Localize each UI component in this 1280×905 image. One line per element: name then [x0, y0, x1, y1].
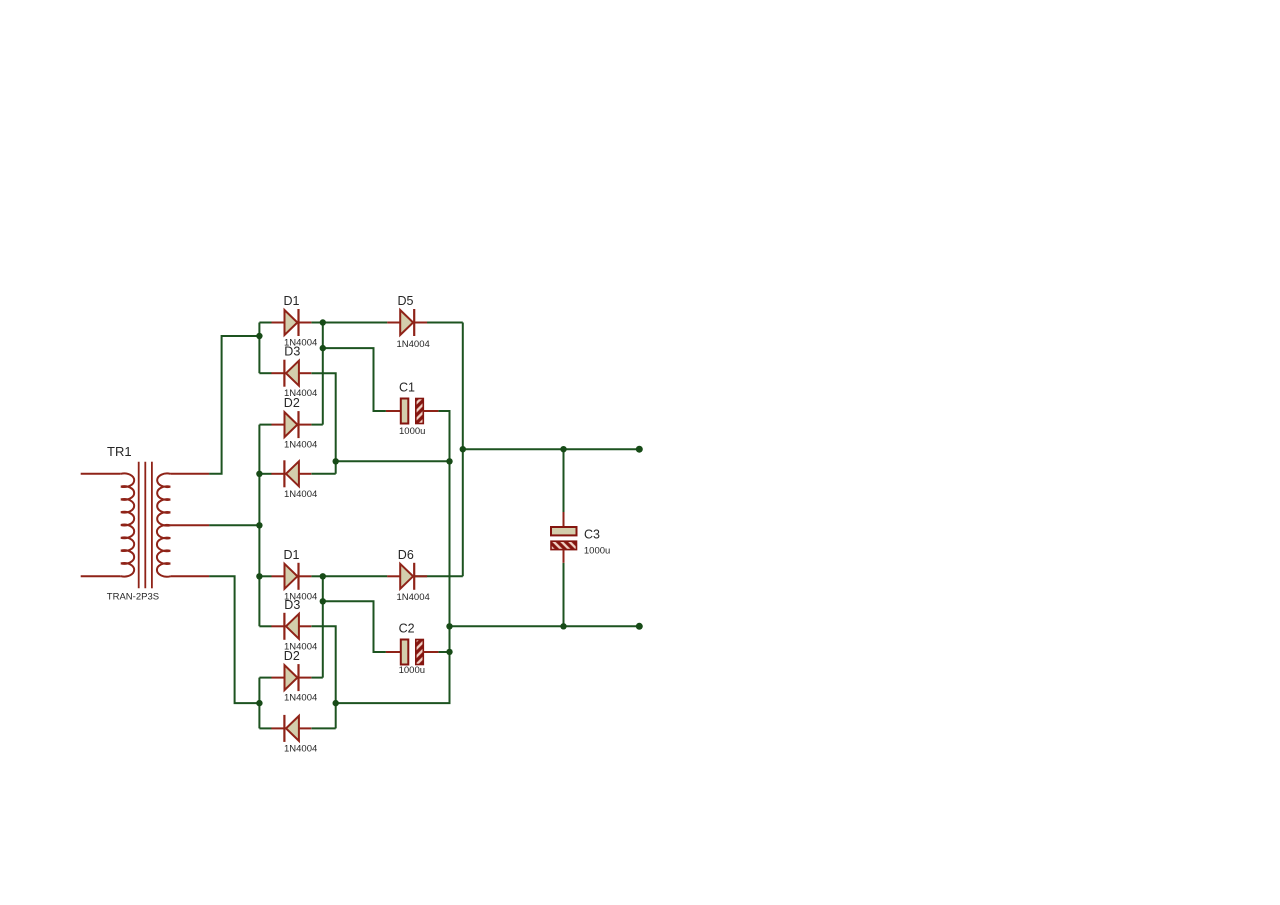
wire D1 node to D5 anode — [323, 322, 388, 324]
svg-text:1000u: 1000u — [399, 426, 425, 437]
node rail A / C2 — [446, 649, 452, 655]
wire D3b stub — [259, 625, 271, 627]
wire transformer top secondary to rail — [209, 336, 259, 474]
terminal output+ — [636, 446, 643, 453]
svg-text:1000u: 1000u — [399, 665, 425, 676]
svg-text:D3: D3 — [284, 598, 300, 612]
wire D2b anode stub — [259, 677, 271, 679]
node D3-D4 cathodes — [333, 458, 339, 464]
wire D1b cathode stub — [311, 575, 322, 577]
diode D4 (bottom, unlabelled) 1N4004 — [271, 715, 317, 755]
wire D3 cathode down — [311, 373, 335, 474]
node D1b-D6 — [320, 573, 326, 579]
svg-text:TRAN-2P3S: TRAN-2P3S — [107, 591, 159, 602]
wire center tap — [209, 524, 259, 526]
wire C3 top lead upper — [563, 449, 565, 512]
diode D2 (bottom) 1N4004 — [272, 649, 318, 703]
diode D3 (top) 1N4004 — [271, 345, 317, 400]
wire mid node to rail A — [336, 460, 450, 462]
wire D2 cathode stub — [311, 424, 322, 426]
node rail B output+ — [460, 446, 466, 452]
wire node vertical lower — [322, 576, 324, 677]
svg-text:D1: D1 — [284, 548, 300, 562]
wire D2b cathode stub — [311, 677, 322, 679]
node D1-D5 — [320, 319, 326, 325]
wire to D4b — [335, 703, 337, 728]
wire bottom node to C2 right corner — [336, 652, 450, 703]
wire D1b node to D6 anode — [323, 575, 388, 577]
diode D2 (top) 1N4004 — [272, 396, 318, 451]
node rail / center tap — [256, 522, 262, 528]
svg-text:D2: D2 — [284, 649, 300, 663]
svg-text:D6: D6 — [398, 548, 414, 562]
node D3b branch — [320, 598, 326, 604]
diode D4 (top, unlabelled) 1N4004 — [271, 460, 317, 500]
capacitor C2 1000u — [386, 622, 439, 676]
wire D6 cathode to rail B — [414, 575, 463, 577]
node C3 bottom — [560, 623, 566, 629]
wire positive output — [463, 448, 640, 450]
terminal output- — [636, 623, 643, 630]
diode D5 1N4004 — [387, 294, 430, 350]
svg-text:1000u: 1000u — [584, 546, 610, 557]
svg-text:1N4004: 1N4004 — [284, 489, 317, 500]
wire D4b cathode stub — [311, 727, 335, 729]
node rail / D4 row — [256, 471, 262, 477]
wire negative output — [450, 625, 640, 627]
diode D1 (bottom) 1N4004 — [272, 548, 318, 602]
wire D2 anode stub — [259, 424, 271, 426]
svg-text:TR1: TR1 — [107, 444, 132, 459]
node D3 branch — [320, 345, 326, 351]
node rail A upper — [446, 458, 452, 464]
capacitor C1 1000u — [386, 381, 439, 437]
node rail A output- — [446, 623, 452, 629]
capacitor C3 1000u — [551, 512, 610, 563]
svg-text:D3: D3 — [284, 345, 300, 359]
wire D1 cathode to node — [311, 322, 322, 324]
wire D1 anode stub — [259, 322, 271, 324]
svg-text:D1: D1 — [284, 294, 300, 308]
wire D1b anode stub — [259, 575, 271, 577]
svg-text:C1: C1 — [399, 381, 415, 395]
transformer TR1 — [81, 444, 209, 602]
svg-text:1N4004: 1N4004 — [397, 339, 430, 350]
diode D6 1N4004 — [387, 548, 430, 603]
node rail / D1b row — [256, 573, 262, 579]
wire right rail B — [462, 323, 464, 577]
diode D1 (top) 1N4004 — [272, 294, 318, 348]
node rail / transformer bottom — [256, 700, 262, 706]
svg-text:1N4004: 1N4004 — [284, 440, 317, 451]
wire D4b stub — [259, 727, 271, 729]
wire left rail lowest segment — [258, 678, 260, 729]
node C3 top — [560, 446, 566, 452]
wire D5 cathode to right rail — [414, 322, 463, 324]
diode D3 (bottom) 1N4004 — [271, 598, 317, 652]
wire node to C2 left — [323, 601, 386, 652]
svg-text:D5: D5 — [398, 294, 414, 308]
svg-text:D2: D2 — [284, 396, 300, 410]
wire rail A — [438, 411, 449, 652]
wire D3 stub — [259, 372, 271, 374]
wire C2 right to rail A — [438, 651, 449, 653]
wire node vertical upper — [322, 323, 324, 425]
node D3b-D4b cathodes — [333, 700, 339, 706]
node rail / transformer top — [256, 333, 262, 339]
svg-text:1N4004: 1N4004 — [397, 592, 430, 603]
wire D4 cathode stub — [311, 473, 335, 475]
wire left rail main segment — [258, 425, 260, 627]
svg-text:1N4004: 1N4004 — [284, 693, 317, 704]
wire node to C1 left — [323, 348, 386, 411]
wire transformer bottom secondary detour — [209, 576, 259, 703]
wire D4 stub — [259, 473, 271, 475]
wire left rail upper segment — [258, 323, 260, 374]
svg-text:1N4004: 1N4004 — [284, 743, 317, 754]
svg-text:C3: C3 — [584, 527, 600, 541]
svg-text:C2: C2 — [399, 622, 415, 636]
wire C3 bottom lead lower — [563, 563, 565, 627]
wire D3b cathode down — [311, 626, 335, 703]
